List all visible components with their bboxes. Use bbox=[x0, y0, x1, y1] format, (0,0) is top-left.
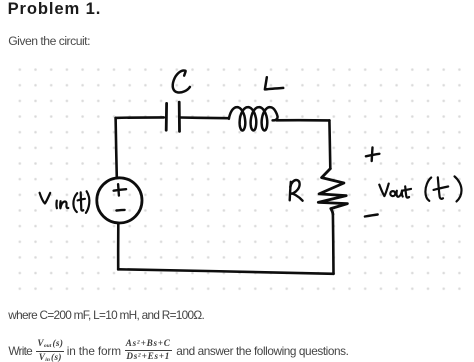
label C bbox=[173, 71, 190, 93]
bottom wire bbox=[118, 269, 333, 274]
capacitor C bbox=[166, 102, 179, 131]
label V_in(t) bbox=[40, 191, 90, 213]
voltage source V_in bbox=[97, 178, 142, 223]
page title bbox=[8, 0, 102, 19]
bottom text line 1 bbox=[8, 308, 204, 322]
bottom text line 2 bbox=[8, 346, 32, 358]
wire: right vertical down to resistor bbox=[328, 120, 331, 168]
wire: source top up to top-left corner bbox=[116, 118, 117, 178]
wire: resistor to bottom-right corner bbox=[332, 214, 335, 274]
wire: inductor to top-right corner bbox=[277, 119, 330, 122]
intro text bbox=[8, 34, 90, 48]
resistor R bbox=[318, 169, 347, 215]
label Vout(t) bbox=[379, 176, 461, 201]
polarity + for Vout bbox=[366, 147, 380, 161]
label R bbox=[290, 180, 303, 201]
inductor L bbox=[229, 107, 278, 130]
wire: capacitor to inductor bbox=[180, 116, 229, 119]
label L bbox=[265, 77, 283, 89]
wire: bottom-left up to source bbox=[117, 224, 120, 269]
wire: top-left rail from left corner to capacitor bbox=[116, 116, 164, 119]
polarity - for Vout bbox=[365, 215, 378, 217]
